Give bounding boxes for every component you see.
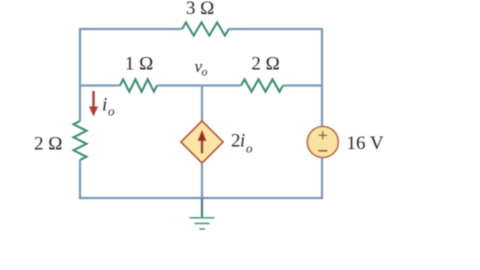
wire middle row right segment <box>283 84 322 86</box>
svg-text:i: i <box>240 132 245 152</box>
wire left vertical upper segment <box>79 28 81 121</box>
svg-text:1 Ω: 1 Ω <box>125 54 153 75</box>
label 2 ohm left value <box>34 134 62 155</box>
ground symbol <box>190 218 215 229</box>
svg-text:o: o <box>246 141 253 156</box>
label 2io value <box>231 131 253 156</box>
wire top-right horizontal segment <box>229 28 322 30</box>
voltage source V1 16V circle <box>307 127 338 158</box>
label 2 ohm right value <box>251 54 279 75</box>
label 1 ohm value <box>125 54 153 75</box>
svg-text:2 Ω: 2 Ω <box>34 134 62 155</box>
resistor 3ohm zigzag <box>182 22 229 35</box>
svg-text:o: o <box>202 65 208 79</box>
wire middle row center segment <box>157 84 241 86</box>
wire bottom horizontal <box>79 197 323 199</box>
wire node vo to diamond <box>201 86 203 122</box>
wire diamond to bottom <box>201 163 203 198</box>
resistor 1ohm zigzag <box>120 79 157 91</box>
label io current <box>102 95 115 119</box>
svg-text:i: i <box>102 95 107 116</box>
svg-text:o: o <box>108 104 115 119</box>
current arrow io <box>89 91 98 117</box>
dependent current source 2io diamond <box>181 121 223 163</box>
wire left vertical lower segment <box>79 160 81 199</box>
wire ground stub <box>201 198 203 218</box>
wire right vertical upper segment <box>321 28 323 127</box>
svg-text:3 Ω: 3 Ω <box>186 0 214 19</box>
resistor 2ohm right zigzag <box>241 79 283 91</box>
label 16 V value <box>347 133 384 154</box>
node vo label <box>195 57 208 79</box>
wire top-left horizontal segment <box>80 28 182 30</box>
wire middle row left segment <box>80 84 120 86</box>
svg-text:2 Ω: 2 Ω <box>251 54 279 75</box>
svg-text:16 V: 16 V <box>347 133 384 154</box>
wire right vertical lower segment <box>321 158 323 200</box>
label 3 ohm value <box>186 0 214 19</box>
resistor 2ohm left vertical zigzag <box>74 121 87 160</box>
